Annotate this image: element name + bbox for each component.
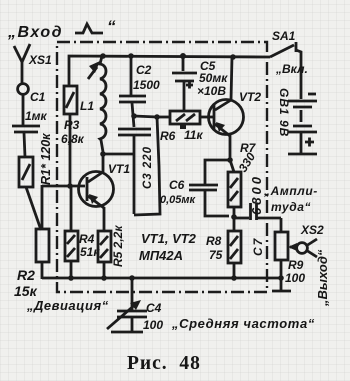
svg-text:R5 2,2к: R5 2,2к (111, 225, 125, 267)
switch SA1 (270, 29, 308, 99)
svg-text:C6: C6 (169, 178, 185, 192)
svg-text:Рис. 48: Рис. 48 (127, 353, 201, 374)
label Амплитуда (263, 184, 318, 214)
resistor R8 (206, 217, 241, 281)
wire: C3 node to R6 node (134, 116, 157, 117)
label VT1 VT2 type (139, 231, 197, 263)
svg-text:„Средняя частота“: „Средняя частота“ (171, 316, 315, 331)
wire: VT1 base rail (42, 185, 85, 188)
svg-text:„Ампли-: „Ампли- (263, 184, 318, 198)
svg-text:100: 100 (285, 271, 305, 285)
svg-text:VT2: VT2 (239, 90, 261, 104)
node: input label Вход (7, 17, 116, 41)
svg-text:туда“: туда“ (271, 200, 311, 214)
connector XS1 (14, 44, 52, 125)
resistor R6 (157, 111, 213, 143)
svg-text:„Вход: „Вход (7, 24, 63, 41)
svg-text:1мк: 1мк (25, 109, 48, 123)
ground bus (42, 275, 281, 281)
svg-text:XS2: XS2 (300, 223, 324, 237)
svg-text:11к: 11к (184, 128, 203, 142)
svg-text:„Вкл.: „Вкл. (275, 62, 308, 76)
connector XS2 (288, 223, 324, 257)
svg-text:C7: C7 (251, 237, 265, 256)
svg-text:50мк: 50мк (199, 71, 228, 85)
svg-text:C2: C2 (136, 63, 152, 77)
transistor VT1 (79, 151, 135, 231)
svg-text:МП42А: МП42А (139, 248, 183, 263)
potentiometer R9 (272, 218, 305, 291)
svg-text:R6: R6 (160, 129, 176, 143)
inductor L1 (80, 53, 106, 152)
svg-text:75: 75 (209, 248, 223, 262)
svg-text:1500: 1500 (133, 78, 160, 92)
svg-text:GB1 9В: GB1 9В (277, 88, 291, 137)
svg-text:100: 100 (143, 318, 163, 332)
resistor R2 (14, 229, 49, 299)
svg-text:6,8к: 6,8к (61, 132, 85, 146)
capacitor C7 (234, 174, 281, 256)
svg-text:R9: R9 (288, 258, 304, 272)
svg-text:15к: 15к (14, 283, 38, 299)
svg-text:R8: R8 (206, 234, 222, 248)
svg-text:C3 220: C3 220 (142, 146, 154, 189)
svg-text:VT1: VT1 (108, 162, 130, 176)
battery GB1 (277, 88, 317, 154)
svg-text:XS1: XS1 (28, 53, 52, 67)
capacitor C6 loop (160, 157, 233, 216)
capacitor C5 (172, 53, 228, 111)
svg-text:0,05мк: 0,05мк (160, 194, 197, 206)
capacitor C4 variable (107, 278, 163, 332)
capacitor C2 (119, 53, 160, 127)
svg-text:SA1: SA1 (272, 29, 296, 43)
resistor R5 (98, 225, 125, 279)
svg-text:×10В: ×10В (197, 84, 226, 98)
top rail wire (69, 56, 270, 87)
svg-text:VT1, VT2: VT1, VT2 (141, 231, 197, 246)
svg-text:C1: C1 (30, 90, 46, 104)
svg-text:“: “ (107, 17, 116, 36)
svg-text:„Девиация“: „Девиация“ (26, 298, 109, 313)
resistor R7 (228, 141, 258, 220)
svg-text:L1: L1 (80, 99, 94, 113)
pulse waveform symbol (75, 24, 103, 33)
svg-text:„Выход“: „Выход“ (315, 249, 330, 307)
svg-text:R2: R2 (17, 267, 35, 283)
svg-text:R1* 120к: R1* 120к (39, 133, 53, 185)
capacitor C3 (118, 113, 154, 214)
resistor R1 (19, 133, 53, 230)
resistor R3 (61, 86, 85, 189)
capacitor C1 (12, 90, 48, 157)
resistor R4 (65, 186, 100, 279)
svg-text:C4: C4 (146, 301, 162, 315)
svg-text:R3: R3 (64, 118, 80, 132)
svg-text:R4: R4 (79, 232, 95, 246)
svg-text:6800: 6800 (249, 174, 264, 215)
transistor VT2 (209, 54, 262, 161)
shield box dash-dot (57, 42, 267, 292)
